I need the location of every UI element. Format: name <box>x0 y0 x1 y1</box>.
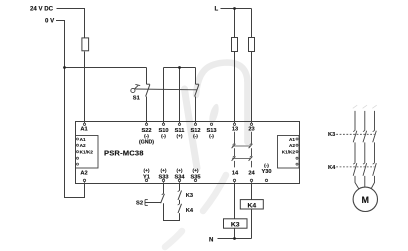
svg-text:K4: K4 <box>247 202 256 209</box>
switch S1 contact 2 (NC) <box>196 83 199 85</box>
phase line continuation marks <box>353 105 357 108</box>
svg-text:K3: K3 <box>186 193 193 199</box>
contactor coil K3 <box>224 219 248 228</box>
contactor K3 main contacts <box>353 131 357 142</box>
svg-text:N: N <box>209 237 213 244</box>
wire L to fuse F3 <box>251 9 253 38</box>
switch S1 actuator link <box>135 88 197 91</box>
start button S2 contact (NO) <box>161 194 165 203</box>
wire S2 to loop bottom <box>164 203 180 220</box>
svg-text:PSR-MC38: PSR-MC38 <box>104 148 144 157</box>
contactor K4 main contacts <box>353 163 357 176</box>
wire 14 to coil K3 <box>234 182 236 219</box>
terminal circles top edge <box>83 123 252 125</box>
feedback contact K3 <box>178 191 182 200</box>
bus S10-S11-S12 <box>164 67 196 69</box>
svg-text:Y30: Y30 <box>261 169 271 175</box>
svg-text:(+): (+) <box>144 168 150 174</box>
svg-text:A1: A1 <box>289 137 295 142</box>
svg-text:A1: A1 <box>80 127 87 133</box>
svg-text:K1/K2: K1/K2 <box>80 150 94 155</box>
fuse F1 <box>82 38 89 51</box>
watermark droplet <box>207 103 220 125</box>
svg-text:24: 24 <box>248 171 255 177</box>
svg-text:(-): (-) <box>144 133 149 139</box>
N rail wire <box>218 238 252 240</box>
svg-text:M: M <box>362 195 370 205</box>
wire bus to S10 <box>163 68 165 124</box>
wire fuse F2 to terminal 13 <box>234 52 236 124</box>
junction node N <box>233 237 236 240</box>
svg-text:24 V DC: 24 V DC <box>30 5 54 12</box>
0 V rail wire <box>56 21 85 198</box>
svg-text:A1: A1 <box>80 137 86 142</box>
svg-text:S2: S2 <box>136 201 143 207</box>
svg-text:A2: A2 <box>80 171 87 177</box>
svg-text:23: 23 <box>248 127 254 133</box>
svg-text:(+): (+) <box>193 168 199 174</box>
relay contact K1/K2 path 13-14 <box>232 132 236 168</box>
relay contact K1/K2 path 23-24 <box>249 132 253 168</box>
wires to motor <box>355 176 360 191</box>
svg-text:14: 14 <box>232 171 239 177</box>
wire bus to S1 contact 1 <box>146 68 148 85</box>
svg-text:(-): (-) <box>161 133 166 139</box>
svg-text:K3: K3 <box>231 222 240 229</box>
mechanical link contacts row 2 <box>232 157 250 159</box>
svg-text:K4: K4 <box>328 165 336 171</box>
svg-text:0 V: 0 V <box>45 18 55 25</box>
svg-text:(+): (+) <box>177 168 183 174</box>
mechanical link contacts row 1 <box>232 145 250 147</box>
svg-text:S11: S11 <box>175 128 185 134</box>
motor feed phase wires <box>353 105 377 108</box>
fuse F3 <box>249 38 255 52</box>
switch S1 contact 1 (NC) <box>147 83 150 85</box>
junction node L bus <box>233 7 236 10</box>
svg-text:13: 13 <box>232 127 238 133</box>
junction node S11 bus <box>178 66 181 69</box>
0V bus wire to S1 <box>65 67 147 69</box>
svg-text:S1: S1 <box>133 96 140 102</box>
svg-text:S13: S13 <box>206 128 216 134</box>
svg-text:(GND): (GND) <box>139 140 154 146</box>
svg-text:A2: A2 <box>80 143 86 148</box>
svg-text:K1/K2: K1/K2 <box>282 150 296 155</box>
svg-text:(-): (-) <box>264 163 269 169</box>
wire bus to S11 <box>179 68 181 124</box>
svg-text:(-): (-) <box>193 133 198 139</box>
L rail wire <box>221 8 252 10</box>
relay U1 PSR-MC38 body <box>76 122 300 184</box>
svg-text:A2: A2 <box>289 143 295 148</box>
svg-text:S22: S22 <box>141 128 151 134</box>
wire S1 contact 1 to S22 <box>146 97 148 124</box>
watermark swoosh arch <box>165 63 247 248</box>
relay U1 right coil block <box>278 136 300 169</box>
wire between K4 and K3 contacts <box>179 200 181 204</box>
svg-text:K3: K3 <box>328 132 335 138</box>
wire S1 contact 2 to S12 <box>195 97 197 124</box>
wire fuse F3 to terminal 23 <box>251 52 253 124</box>
svg-text:(+): (+) <box>161 168 167 174</box>
feedback contact K4 <box>178 204 182 213</box>
wire fuse F1 to A1 <box>84 52 86 124</box>
contactor coil K4 <box>240 200 263 209</box>
wire coil K3 to N <box>234 228 236 238</box>
button S2 actuator <box>144 200 146 206</box>
svg-text:L: L <box>215 5 219 12</box>
24 V DC rail wire <box>57 9 85 38</box>
wire coil K4 to N <box>251 209 253 239</box>
svg-text:S12: S12 <box>190 128 200 134</box>
relay U1 left coil block <box>76 136 99 169</box>
junction node 0V bus <box>63 66 66 69</box>
wire S33 to S2 <box>145 182 182 220</box>
wire 24 to coil K4 <box>251 182 253 199</box>
wire L to fuse F2 <box>234 9 236 38</box>
wire S34 to K3 contact <box>179 182 181 190</box>
svg-text:K4: K4 <box>186 208 194 214</box>
fuse F2 <box>232 38 238 52</box>
svg-text:(+): (+) <box>177 133 183 139</box>
contact fixed-end ticks <box>162 130 375 205</box>
terminal circles bottom edge <box>83 179 267 181</box>
wire bus to S1 contact 2 <box>195 68 197 85</box>
svg-text:S10: S10 <box>158 128 168 134</box>
switch S1 actuator head <box>131 88 135 92</box>
relay U1 left coil block pins A1 A2 K1/K2 <box>77 138 79 165</box>
motor M1 <box>353 187 377 211</box>
relay U1 right coil block pins A1 A2 K1/K2 <box>296 138 298 165</box>
svg-text:(-): (-) <box>209 133 214 139</box>
